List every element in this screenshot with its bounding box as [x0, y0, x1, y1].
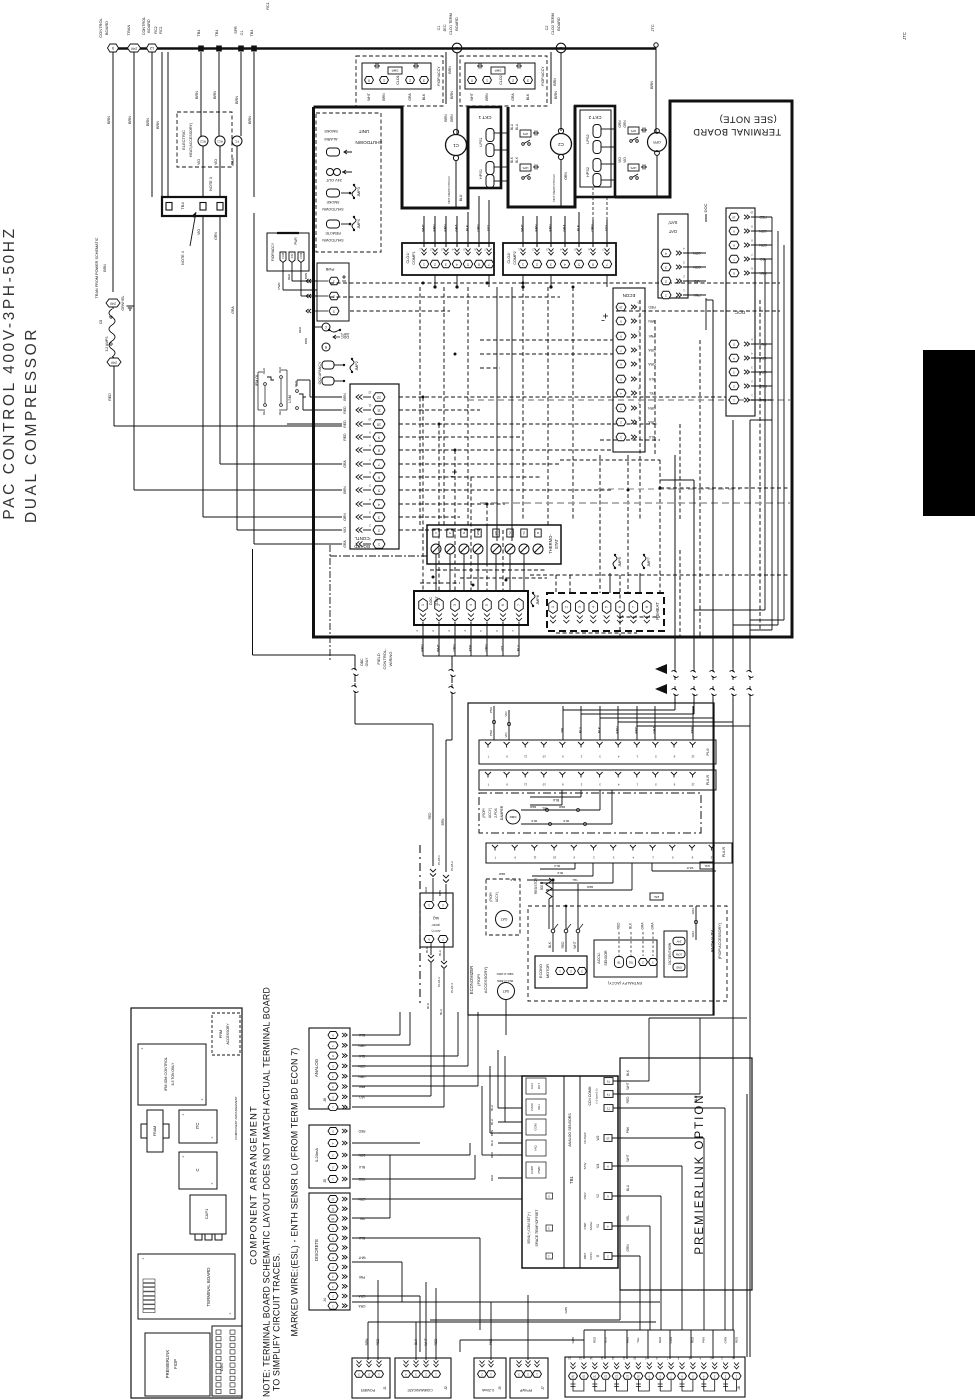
svg-text:TB1: TB1: [569, 1175, 574, 1183]
svg-text:BLK: BLK: [490, 1140, 494, 1146]
economizer motor contacts: [551, 929, 555, 933]
svg-text:PL6: PL6: [705, 748, 710, 756]
svg-text:1: 1: [378, 542, 380, 546]
svg-text:COMPONENT ARRANGEMENT: COMPONENT ARRANGEMENT: [234, 1096, 238, 1140]
svg-text:GRN: GRN: [564, 1307, 568, 1314]
svg-text:1: 1: [551, 606, 555, 608]
svg-text:PNK: PNK: [702, 1337, 706, 1343]
svg-text:WHT: WHT: [367, 93, 371, 101]
svg-text:WHT: WHT: [422, 224, 426, 232]
svg-text:BRN: BRN: [156, 121, 160, 129]
svg-text:JMP4: JMP4: [357, 219, 361, 229]
svg-text:COM: COM: [533, 1123, 537, 1131]
wire damper RED: [521, 809, 600, 811]
svg-text:J1: J1: [383, 1386, 387, 1390]
svg-text:5: 5: [605, 606, 609, 608]
connector SAT/OAT: [658, 214, 688, 298]
svg-text:UNIT: UNIT: [358, 129, 369, 134]
svg-text:BLU: BLU: [439, 1009, 443, 1015]
outline main control box: [314, 107, 469, 208]
svg-text:SAT/: SAT/: [668, 220, 678, 225]
svg-text:2: 2: [378, 528, 380, 532]
svg-text:SHUTDOWN: SHUTDOWN: [322, 238, 344, 242]
svg-text:6: 6: [478, 262, 480, 266]
svg-text:4: 4: [469, 604, 473, 606]
pressure switch HPS1: [486, 162, 494, 175]
wire C1 down: [455, 161, 457, 208]
svg-text:1: 1: [421, 604, 425, 606]
svg-text:BLK: BLK: [510, 878, 516, 882]
svg-text:7: 7: [378, 462, 380, 466]
wire dashed h: [399, 409, 480, 411]
wire dashed h: [420, 582, 460, 584]
svg-text:POWER: POWER: [361, 1388, 376, 1392]
svg-text:BRN: BRN: [235, 96, 239, 104]
wire drop RC2: [161, 52, 163, 197]
svg-text:0-20mA: 0-20mA: [314, 1148, 319, 1162]
svg-text:BRN: BRN: [382, 93, 386, 101]
svg-text:AUX: AUX: [530, 1083, 534, 1089]
svg-text:(FIOP/: (FIOP/: [489, 892, 493, 901]
wire dashed h: [399, 436, 520, 438]
svg-text:RC1: RC1: [159, 26, 163, 34]
svg-text:(FIOP/ACCESSORY): (FIOP/ACCESSORY): [718, 922, 722, 959]
module IFM IDM CONTROL: [138, 1044, 206, 1105]
svg-text:BLU: BLU: [603, 1337, 607, 1343]
wire dashed h: [480, 339, 613, 341]
svg-text:ORN: ORN: [452, 644, 456, 652]
svg-text:7: 7: [632, 606, 636, 608]
svg-text:J4: J4: [323, 1298, 327, 1302]
svg-text:WHT: WHT: [686, 866, 693, 870]
svg-text:RED: RED: [593, 1336, 597, 1343]
svg-text:6: 6: [618, 606, 622, 608]
module ITC: [179, 1110, 217, 1143]
wire TB4 GRN down: [219, 216, 221, 464]
svg-text:OAT: OAT: [501, 917, 508, 921]
svg-text:BLK: BLK: [597, 726, 601, 733]
module CKT 2 box: [575, 106, 615, 197]
svg-text:VIO: VIO: [605, 225, 609, 231]
svg-text:ORN: ORN: [648, 406, 656, 410]
wire dashed v: [627, 455, 629, 593]
svg-text:JMP8: JMP8: [536, 595, 540, 605]
svg-text:SAFE/: SAFE/: [589, 1222, 593, 1231]
svg-text:12: 12: [149, 46, 154, 51]
wire dashed v: [699, 340, 701, 560]
svg-text:BOARD: BOARD: [455, 17, 459, 31]
svg-text:BRN: BRN: [485, 93, 489, 101]
svg-text:SMOKE: SMOKE: [324, 129, 338, 133]
svg-text:CLO2: CLO2: [499, 75, 503, 84]
svg-text:TERMINAL BOARD: TERMINAL BOARD: [206, 1268, 211, 1307]
svg-text:4: 4: [378, 502, 380, 506]
svg-text:ANALOG SENSORS: ANALOG SENSORS: [568, 1113, 572, 1147]
svg-text:BRN: BRN: [444, 114, 448, 122]
svg-text:ACCU-: ACCU-: [597, 952, 601, 964]
svg-text:RC1: RC1: [266, 2, 270, 9]
e-symbol mesh: [451, 470, 458, 477]
svg-text:11: 11: [331, 1207, 334, 1211]
wire exit 1: [674, 455, 676, 668]
svg-text:NOTE 4: NOTE 4: [181, 251, 185, 265]
wires J8 up: [583, 1330, 585, 1359]
svg-text:DAMPER: DAMPER: [500, 805, 504, 820]
svg-text:GRA: GRA: [231, 306, 235, 314]
svg-text:CLO2 TERM: CLO2 TERM: [551, 13, 555, 35]
svg-text:COM: COM: [299, 253, 303, 259]
svg-text:DDC: DDC: [360, 658, 364, 666]
jumper JMP8: [531, 594, 535, 605]
svg-text:PREMIERLINK: PREMIERLINK: [165, 1350, 170, 1379]
svg-text:PNK: PNK: [690, 726, 694, 734]
wire drop 12 BRN: [151, 52, 153, 197]
wires TB1 to J8 verticals: [639, 1256, 641, 1330]
wire CLO1 vertical BRN: [445, 52, 447, 104]
svg-text:BRN: BRN: [438, 890, 442, 896]
svg-text:FILTER/: FILTER/: [583, 1132, 587, 1143]
svg-text:10: 10: [553, 855, 557, 859]
svg-text:10: 10: [331, 1217, 335, 1221]
svg-text:RED: RED: [634, 726, 638, 734]
wire dashed v: [454, 450, 456, 591]
wires PL6-R down BLU YEL: [580, 790, 582, 797]
svg-text:FSD/: FSD/: [583, 1192, 587, 1199]
svg-text:BLK: BLK: [628, 922, 632, 929]
svg-text:BRN: BRN: [648, 319, 656, 323]
svg-text:YEL: YEL: [359, 1217, 365, 1221]
wire exit 5: [749, 420, 751, 668]
wire cluster to pin10 RED: [287, 423, 342, 425]
svg-text:12: 12: [377, 395, 381, 399]
wire into pin5 BRN: [134, 489, 342, 491]
junction dots thermostat-docstat: [472, 584, 475, 587]
wire dash-dot to thermostat: [330, 555, 427, 557]
svg-text:GRA: GRA: [691, 908, 695, 915]
svg-text:BLK: BLK: [577, 224, 581, 231]
svg-text:LOW: LOW: [675, 952, 682, 956]
connector CONTL BOARD: [350, 384, 399, 549]
terminal 24V tran: [128, 44, 141, 52]
svg-text:2-POS: 2-POS: [494, 808, 498, 818]
wire dashed h: [660, 487, 790, 489]
connector DOC STAT: [414, 591, 528, 625]
break row 2: [672, 686, 679, 698]
svg-text:WHT: WHT: [470, 93, 474, 101]
svg-text:DUAL COMPRESSOR: DUAL COMPRESSOR: [23, 327, 40, 523]
wire drop C1 BRN: [456, 53, 458, 134]
wire dashed v: [659, 460, 661, 593]
svg-text:IFM IDM CONTROL: IFM IDM CONTROL: [164, 1057, 168, 1091]
jumper JMP2: [350, 360, 354, 371]
connector J1 POWER: [352, 1358, 390, 1398]
svg-text:12: 12: [691, 782, 695, 786]
terminal 5 control board: [108, 44, 119, 52]
module TB1 sensors box: [522, 1076, 618, 1268]
svg-text:ESL: ESL: [704, 864, 710, 868]
wire dashed h: [399, 516, 460, 518]
wire OFR down: [656, 155, 658, 197]
svg-text:6: 6: [501, 604, 505, 606]
wires J4 right: [352, 1198, 522, 1200]
svg-text:BRN: BRN: [554, 91, 558, 99]
wire dashed v: [639, 300, 641, 520]
svg-text:ORN: ORN: [723, 1337, 727, 1344]
svg-text:BLK: BLK: [466, 224, 470, 231]
wire dashed h: [330, 296, 560, 298]
svg-text:11: 11: [524, 782, 527, 786]
svg-text:WHT: WHT: [626, 1082, 630, 1089]
svg-text:TB1: TB1: [628, 960, 633, 963]
svg-text:11: 11: [368, 403, 371, 407]
wire CLO2 pin6 ORN up: [592, 188, 594, 220]
wires reheat up: [609, 573, 611, 593]
svg-text:BRN: BRN: [343, 486, 347, 494]
svg-text:BRN: BRN: [448, 66, 452, 74]
svg-text:BOARD: BOARD: [354, 544, 370, 549]
svg-text:ACCY): ACCY): [495, 892, 499, 902]
svg-text:+: +: [182, 1155, 184, 1159]
wire dashed h: [399, 476, 540, 478]
svg-text:C1: C1: [240, 31, 244, 36]
svg-text:'STAT: 'STAT: [435, 596, 439, 606]
terminal 24V second: [107, 358, 121, 366]
svg-text:X: X: [434, 532, 438, 534]
pressure switch LPS1: [486, 129, 494, 142]
svg-text:PL18-1: PL18-1: [437, 855, 441, 865]
svg-text:CONTROL: CONTROL: [98, 17, 103, 37]
svg-text:IRH: IRH: [537, 1104, 541, 1109]
svg-text:1: 1: [383, 78, 385, 82]
wire DOC bundle down 3: [783, 245, 785, 620]
svg-text:5: 5: [378, 488, 380, 492]
wires below breaks: [712, 698, 714, 1015]
wires CKT2 to LPS/HPS tags: [601, 128, 615, 130]
wire bottom bus GRA: [352, 1301, 660, 1303]
svg-text:COMP2: COMP2: [513, 251, 517, 265]
svg-text:ACCY): ACCY): [431, 929, 440, 933]
svg-text:+: +: [229, 1312, 231, 1316]
wire drop RC1: [167, 52, 169, 197]
wire into pin1 GRA: [253, 213, 255, 544]
connector J4 DISCRETE: [309, 1193, 350, 1310]
svg-text:BLK-O-BRN: BLK-O-BRN: [497, 979, 513, 983]
svg-text:W2: W2: [476, 530, 480, 535]
svg-text:10: 10: [368, 417, 372, 421]
svg-text:YEL: YEL: [636, 1337, 640, 1343]
svg-text:5: 5: [578, 262, 580, 266]
svg-text:BLK: BLK: [526, 93, 530, 100]
wire drop TB4-2 BRN: [218, 52, 220, 136]
svg-text:5: 5: [485, 604, 489, 606]
svg-text:ECON: ECON: [623, 293, 636, 298]
wire drop TB4-3 BRN: [253, 52, 255, 197]
svg-text:WHT: WHT: [436, 644, 440, 652]
svg-text:BRN: BRN: [450, 114, 454, 122]
svg-text:DMR: DMR: [509, 815, 517, 819]
svg-text:GRA: GRA: [648, 348, 656, 352]
svg-text:PL18-4: PL18-4: [450, 983, 454, 993]
svg-text:YEL: YEL: [560, 727, 564, 733]
tag ESL 1: [700, 862, 714, 869]
svg-text:SHUTDOWN: SHUTDOWN: [322, 207, 344, 211]
svg-text:2: 2: [512, 78, 514, 82]
svg-text:3: 3: [665, 265, 667, 269]
pressure switch LPS2: [593, 125, 601, 138]
svg-text:VIO: VIO: [197, 159, 201, 165]
svg-text:ITC: ITC: [195, 1123, 200, 1130]
svg-text:4: 4: [665, 251, 667, 255]
dash-dot boundary IAQ: [419, 845, 421, 1005]
svg-text:RC2: RC2: [154, 26, 158, 34]
svg-text:3: 3: [453, 604, 457, 606]
wire dashed h: [399, 423, 658, 425]
svg-text:RMT: RMT: [583, 1253, 587, 1260]
svg-text:BOARD: BOARD: [147, 19, 151, 33]
black sidebar block: [923, 350, 975, 516]
svg-text:2: 2: [409, 78, 411, 82]
svg-text:VIO: VIO: [343, 527, 347, 533]
svg-text:24V: 24V: [290, 253, 294, 258]
wire DOC bundle down 2: [777, 231, 779, 625]
svg-text:12: 12: [368, 390, 372, 394]
svg-text:GRA: GRA: [640, 922, 644, 930]
svg-text:3: 3: [445, 262, 447, 266]
svg-text:CAP1: CAP1: [204, 1208, 209, 1219]
wire dashed h: [399, 503, 505, 505]
svg-text:24V: 24V: [109, 301, 116, 305]
svg-text:DMR: DMR: [391, 69, 399, 73]
svg-text:LPS2: LPS2: [586, 134, 590, 143]
svg-text:RED: RED: [490, 1174, 494, 1181]
wire dashed v: [599, 455, 601, 593]
svg-text:GRA: GRA: [343, 540, 347, 548]
svg-text:ACCESSORY: ACCESSORY: [226, 1023, 230, 1045]
svg-text:PAC CONTROL 400V-3PH-50HZ: PAC CONTROL 400V-3PH-50HZ: [1, 226, 18, 519]
wire exit 2: [693, 480, 695, 668]
wire dashed v: [759, 300, 761, 630]
module PREMIERLINK OPTION box: [620, 1058, 752, 1290]
junction TB4 taps: [198, 46, 204, 52]
jumper JMP7: [642, 556, 646, 567]
wire dashed v: [443, 287, 445, 525]
svg-text:PWR: PWR: [277, 282, 281, 290]
svg-text:12: 12: [331, 1198, 335, 1202]
svg-text:J6: J6: [323, 1098, 327, 1102]
svg-text:CONTROL: CONTROL: [142, 17, 146, 36]
connector PL6: [479, 740, 716, 764]
jumper JMP4: [352, 218, 356, 229]
svg-text:CLO1: CLO1: [396, 75, 400, 84]
svg-text:RED: RED: [498, 872, 505, 876]
pressure switch HPS2: [593, 159, 601, 172]
svg-text:BRN: BRN: [433, 224, 437, 232]
svg-text:9: 9: [378, 435, 380, 439]
svg-text:7: 7: [517, 604, 521, 606]
svg-text:TB: TB: [617, 960, 621, 964]
svg-text:NOTE 3: NOTE 3: [209, 177, 213, 191]
svg-text:ORN: ORN: [477, 224, 481, 232]
wire dashed h: [350, 310, 450, 312]
svg-text:IAQ: IAQ: [533, 1145, 537, 1151]
wire WHT tap: [651, 863, 653, 871]
svg-text:BLK: BLK: [648, 377, 655, 381]
relay coil C: [322, 323, 330, 331]
svg-text:3: 3: [527, 78, 529, 82]
svg-text:24V: 24V: [110, 360, 117, 364]
svg-text:PWR: PWR: [537, 1166, 541, 1174]
fuse C8 3.2 amps: [109, 309, 115, 357]
node C2 CLO2 term board: [556, 43, 566, 53]
module IAQ: [420, 893, 453, 947]
svg-text:3.2 AMPS: 3.2 AMPS: [105, 336, 109, 352]
svg-text:GRA: GRA: [563, 224, 567, 232]
svg-text:RED: RED: [358, 1129, 365, 1133]
svg-text:DMR: DMR: [494, 69, 502, 73]
svg-text:RED: RED: [278, 366, 282, 373]
module enthalpy dashed box: [528, 906, 727, 1001]
wires IAQ pins up: [430, 869, 436, 877]
svg-text:HPS: HPS: [630, 166, 636, 170]
svg-text:BLK: BLK: [563, 819, 569, 823]
wire bottom bus 2: [430, 1319, 620, 1321]
module ECONO MOTOR: [535, 956, 587, 988]
svg-text:(SEE NOTE): (SEE NOTE): [719, 115, 777, 125]
wire dashed h: [480, 367, 500, 369]
svg-text:12: 12: [691, 754, 695, 758]
svg-text:BLU: BLU: [510, 123, 514, 130]
wire FC GRA: [236, 146, 238, 330]
svg-text:BRN: BRN: [248, 116, 252, 124]
tag ESL 2: [650, 893, 663, 900]
svg-text:PREMIERLINK OPTION: PREMIERLINK OPTION: [694, 1093, 706, 1254]
svg-text:JMP5: JMP5: [618, 557, 622, 567]
wire cluster to pin12: [296, 380, 298, 386]
svg-text:FIELD: FIELD: [376, 653, 381, 664]
svg-text:2: 2: [536, 262, 538, 266]
svg-text:BRN: BRN: [304, 338, 308, 344]
wire dashed h: [399, 489, 613, 491]
connector ECON: [613, 288, 645, 452]
wire econ top entries: [674, 698, 676, 710]
svg-text:TB4: TB4: [215, 30, 219, 37]
svg-text:BRN: BRN: [304, 273, 308, 279]
wire dashed v: [619, 575, 621, 637]
svg-text:IAQ: IAQ: [433, 916, 439, 920]
svg-text:GRA: GRA: [358, 1304, 366, 1308]
svg-text:HPS2: HPS2: [586, 167, 590, 177]
svg-text:GRA: GRA: [650, 922, 654, 930]
module economizer outer box: [468, 703, 714, 1015]
connector PL6-R upper: [479, 770, 716, 790]
svg-text:GRA: GRA: [455, 224, 459, 232]
svg-text:TRAN: TRAN: [126, 24, 131, 35]
svg-text:TB4: TB4: [197, 30, 201, 37]
svg-text:WHT: WHT: [521, 224, 525, 232]
wires J9 up: [490, 1302, 492, 1360]
svg-text:BLU: BLU: [648, 435, 655, 439]
wire DOC bundle down 1: [771, 217, 773, 630]
svg-text:DOC: DOC: [429, 597, 433, 605]
svg-text:DDC: DDC: [341, 335, 349, 339]
wire CLO2 pin7 VIO up: [606, 197, 608, 220]
svg-text:DOC: DOC: [734, 310, 745, 315]
svg-text:FIOP/ACCY: FIOP/ACCY: [541, 66, 545, 86]
module DDC connector grid: [212, 1326, 242, 1396]
svg-text:FIOP/ACCY: FIOP/ACCY: [271, 242, 275, 261]
svg-text:RED: RED: [343, 433, 347, 441]
svg-text:ACCESSORY): ACCESSORY): [483, 966, 488, 993]
